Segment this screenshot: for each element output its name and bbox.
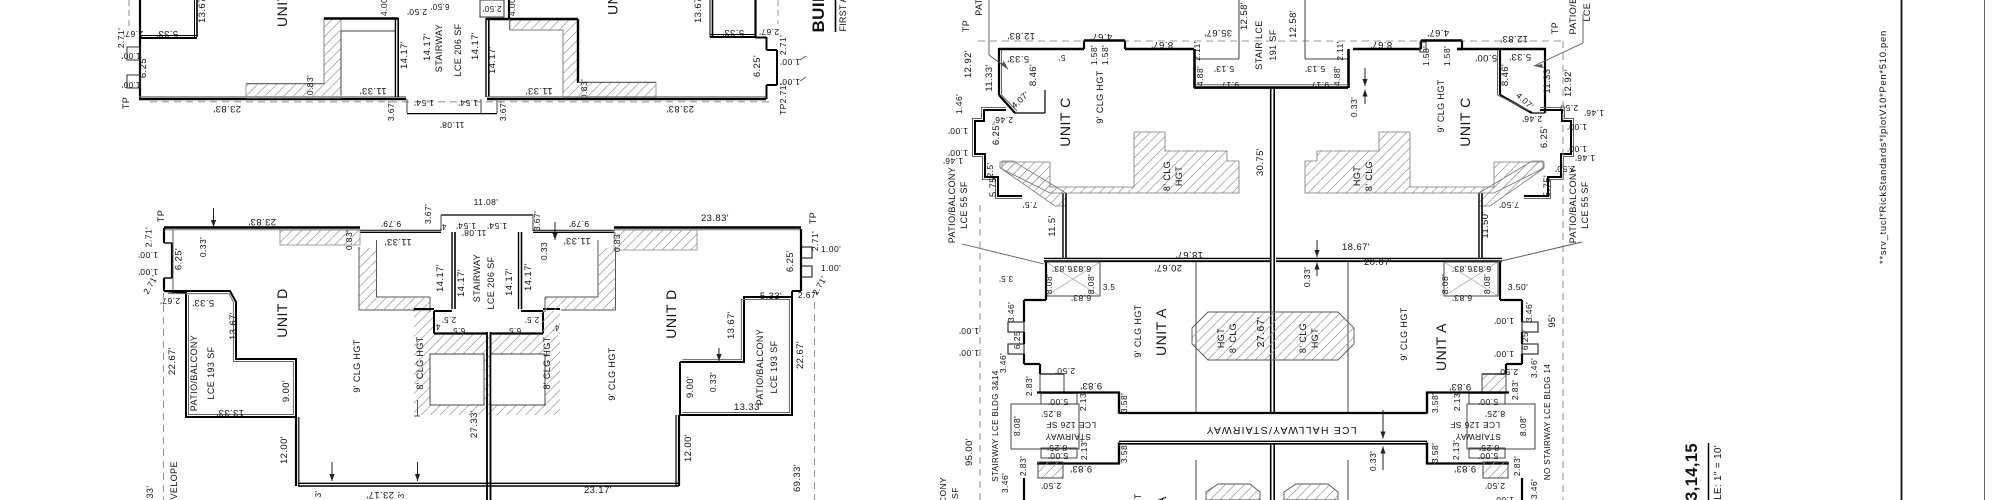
svg-text:35.67': 35.67': [1204, 27, 1232, 38]
svg-text:UNIT C: UNIT C: [1057, 97, 1073, 146]
svg-text:7.5': 7.5': [1022, 200, 1037, 210]
svg-text:95': 95': [1547, 315, 1557, 328]
dashed boundary: [978, 40, 1562, 42]
svg-text:5.13': 5.13': [1214, 64, 1234, 74]
svg-text:11.33': 11.33': [525, 85, 552, 96]
svg-text:33': 33': [145, 486, 155, 499]
svg-text:5.33': 5.33': [722, 27, 744, 38]
svg-text:UNIT D: UNIT D: [605, 0, 621, 15]
svg-text:1.00': 1.00': [1567, 144, 1587, 154]
svg-text:9.83': 9.83': [1080, 380, 1102, 391]
dashed setback line: [150, 101, 770, 103]
svg-text:9' CLG HGT: 9' CLG HGT: [607, 347, 617, 400]
svg-text:3.58': 3.58': [1119, 443, 1129, 463]
svg-text:12.00': 12.00': [279, 436, 290, 464]
svg-text:HGT: HGT: [1174, 166, 1184, 186]
svg-text:20.67': 20.67': [1154, 262, 1182, 273]
svg-text:14.17': 14.17': [523, 263, 534, 291]
svg-text:TP: TP: [121, 97, 131, 109]
svg-text:8.46': 8.46': [1028, 64, 1039, 86]
svg-text:8.08': 8.08': [1518, 416, 1528, 436]
svg-text:6.5': 6.5': [507, 326, 521, 335]
interior wall: [1195, 262, 1197, 412]
wall: [577, 19, 579, 83]
svg-text:2.50': 2.50': [482, 4, 501, 13]
svg-text:2.13': 2.13': [1452, 391, 1462, 411]
svg-text:4.88': 4.88': [1195, 66, 1205, 86]
svg-text:9.83': 9.83': [1070, 463, 1092, 474]
stepped interior wall band right: [615, 247, 617, 310]
svg-text:8.08': 8.08': [1086, 274, 1096, 294]
svg-text:3.58': 3.58': [1430, 393, 1440, 413]
svg-text:1.00': 1.00': [821, 263, 841, 273]
svg-text:STAIRWAY: STAIRWAY: [472, 254, 482, 302]
stair shaft: [1238, 0, 1240, 59]
svg-text:HGT: HGT: [1216, 328, 1226, 348]
svg-text:6.83': 6.83': [1471, 264, 1491, 274]
leader: [962, 244, 1044, 264]
hatched wall band: [246, 19, 341, 98]
svg-text:2.71': 2.71': [810, 231, 820, 251]
svg-text:1.54': 1.54': [458, 98, 478, 108]
svg-text:12.58': 12.58': [1288, 10, 1299, 38]
svg-text:8' CLG: 8' CLG: [1364, 161, 1374, 191]
svg-text:LCE HALLWAY/STAIRWAY: LCE HALLWAY/STAIRWAY: [1205, 424, 1356, 436]
wall: unit A west jogs: [1045, 262, 1047, 300]
svg-text:1.00': 1.00': [121, 80, 140, 89]
svg-text:9.17': 9.17': [1219, 80, 1239, 90]
svg-text:23.17': 23.17': [584, 485, 612, 496]
svg-text:UNIT A: UNIT A: [1153, 308, 1169, 356]
svg-text:7.50': 7.50': [1499, 200, 1519, 210]
svg-text:3.58': 3.58': [1430, 443, 1440, 463]
svg-text:30.75': 30.75': [1255, 148, 1266, 176]
wall: stairway east wall: [488, 18, 490, 97]
stair landing: [406, 99, 408, 113]
svg-text:12.92': 12.92': [963, 50, 974, 78]
svg-text:LCE 55 SF: LCE 55 SF: [959, 181, 969, 229]
svg-text:11.33': 11.33': [359, 85, 386, 96]
wall: north wall left (23.83): [164, 226, 360, 229]
svg-text:20.67': 20.67': [1364, 257, 1392, 268]
svg-text:9' CLG HGT: 9' CLG HGT: [1133, 304, 1143, 357]
interior rooms: [430, 354, 484, 405]
svg-text:5.33': 5.33': [192, 297, 214, 308]
party wall: [486, 332, 488, 500]
stairway LCE 126 SF right: [1426, 391, 1509, 393]
svg-text:23.83': 23.83': [701, 213, 729, 224]
svg-text:LCE 55 SF: LCE 55 SF: [1580, 181, 1590, 229]
svg-text:GS 13,14,15: GS 13,14,15: [1683, 443, 1701, 500]
svg-text:1.54': 1.54': [414, 98, 434, 108]
svg-text:3.5': 3.5': [999, 274, 1013, 283]
svg-text:1.00': 1.00': [138, 250, 158, 260]
svg-text:LCE 5: LCE 5: [1582, 0, 1592, 22]
svg-text:1.00': 1.00': [1494, 495, 1514, 500]
svg-text:11.33': 11.33': [984, 64, 995, 91]
svg-text:9' CLG HGT: 9' CLG HGT: [1133, 493, 1143, 500]
svg-text:1.00': 1.00': [1494, 349, 1514, 359]
svg-text:1.46': 1.46': [954, 94, 964, 114]
patio/balcony right: [680, 297, 792, 415]
svg-text:3.46': 3.46': [1529, 479, 1539, 499]
svg-text:27.67': 27.67': [1255, 317, 1267, 348]
svg-text:2.50': 2.50': [1041, 481, 1061, 491]
svg-text:13.67': 13.67': [693, 0, 704, 23]
svg-text:0.83': 0.83': [579, 79, 589, 99]
svg-text:LCE 206 SF: LCE 206 SF: [453, 23, 463, 76]
svg-text:2.5': 2.5': [442, 315, 456, 324]
svg-text:8.46': 8.46': [1500, 64, 1511, 86]
svg-text:1.58': 1.58': [1442, 46, 1452, 66]
svg-text:6.25': 6.25': [174, 248, 185, 270]
svg-text:5.33': 5.33': [1509, 51, 1531, 62]
svg-text:8' CLG HGT: 8' CLG HGT: [415, 336, 425, 389]
svg-text:3.46': 3.46': [1524, 302, 1534, 322]
svg-text:3.58': 3.58': [1119, 393, 1129, 413]
svg-text:PATIO/BALCONY: PATIO/BALCONY: [189, 335, 199, 411]
wall: east jogs: [766, 37, 768, 50]
svg-text:6.25': 6.25': [752, 55, 763, 77]
hatched wall band right: [510, 20, 656, 98]
svg-text:11.5': 11.5': [1047, 215, 1058, 237]
svg-text:STAIRWAY: STAIRWAY: [1455, 432, 1501, 442]
svg-text:2.50': 2.50': [407, 7, 427, 17]
bay window wall: [998, 48, 1000, 95]
svg-text:1.00': 1.00': [138, 267, 158, 277]
svg-text:8.08': 8.08': [1440, 274, 1450, 294]
svg-text:23.17': 23.17': [366, 489, 394, 500]
svg-text:**srv_tucl*RickStandards*Iplot: **srv_tucl*RickStandards*IplotV10*Pen*51…: [1877, 30, 1888, 264]
svg-text:11.08': 11.08': [462, 228, 487, 238]
svg-text:69.33': 69.33': [792, 464, 803, 492]
svg-text:6.83': 6.83': [1452, 264, 1472, 274]
hallway north wall: [1119, 412, 1427, 414]
svg-text:3.46': 3.46': [1000, 473, 1010, 493]
svg-text:5.75': 5.75': [988, 175, 999, 197]
svg-text:PATIO/BALCONY: PATIO/BALCONY: [1568, 167, 1578, 243]
svg-text:6.50': 6.50': [430, 2, 449, 11]
wall: south wall left unit: [139, 98, 406, 101]
wall: stairway west wall: [397, 18, 399, 97]
dashed line left: [979, 205, 981, 500]
svg-text:3.67': 3.67': [498, 101, 508, 121]
svg-text:3': 3': [314, 491, 323, 498]
svg-text:9.00': 9.00': [685, 376, 696, 398]
svg-text:9' CLG HGT: 9' CLG HGT: [1399, 307, 1409, 360]
svg-text:14.17': 14.17': [456, 269, 467, 297]
svg-text:18.67': 18.67': [1342, 242, 1370, 253]
wall: west wall jogs: [163, 228, 165, 243]
svg-text:3.50': 3.50': [1508, 282, 1528, 292]
svg-text:1.00': 1.00': [821, 244, 841, 254]
svg-text:8.67': 8.67': [1151, 39, 1173, 50]
svg-text:9.79': 9.79': [569, 219, 589, 229]
svg-text:6.83': 6.83': [1071, 264, 1091, 274]
svg-text:4.00: 4.00: [507, 0, 517, 16]
svg-text:1.46': 1.46': [943, 156, 963, 166]
svg-text:2.83': 2.83': [1512, 456, 1522, 476]
svg-text:6.83': 6.83': [1052, 264, 1072, 274]
svg-text:8' CLG HGT: 8' CLG HGT: [542, 336, 552, 389]
svg-text:2.11': 2.11': [1192, 41, 1202, 61]
svg-text:5.00': 5.00': [1478, 397, 1498, 407]
svg-text:6.25: 6.25: [1012, 331, 1022, 349]
interior 8ft ceiling wall hatch: [1000, 132, 1239, 193]
wall: unit west wall: [139, 37, 141, 99]
svg-text:2.83': 2.83': [1024, 376, 1034, 396]
svg-text:14.17': 14.17': [422, 33, 433, 61]
svg-text:UNIT C: UNIT C: [1457, 97, 1473, 146]
svg-text:8' CLG: 8' CLG: [1228, 323, 1238, 353]
svg-text:1.58': 1.58': [1100, 45, 1110, 65]
svg-text:11.08': 11.08': [440, 120, 465, 130]
svg-text:LCE 126 SF: LCE 126 SF: [1046, 420, 1096, 430]
svg-text:14.17': 14.17': [504, 268, 515, 296]
svg-text:6.5': 6.5': [451, 326, 465, 335]
svg-text:4.88': 4.88': [1332, 66, 1342, 86]
core of next unit: [1206, 484, 1260, 500]
svg-text:22.67': 22.67': [795, 341, 806, 369]
svg-text:CONY: CONY: [938, 477, 948, 500]
svg-text:1.54': 1.54': [487, 221, 507, 231]
party wall lower: [1270, 443, 1272, 500]
svg-text:12.00': 12.00': [683, 434, 694, 462]
stairway LCE 126 SF left: [1037, 391, 1120, 393]
wall: unit A east jogs: [1499, 262, 1501, 300]
svg-text:HGT: HGT: [1352, 166, 1362, 186]
svg-text:6.83': 6.83': [1452, 293, 1472, 303]
svg-text:13.67': 13.67': [197, 0, 208, 23]
svg-text:2.71': 2.71': [778, 35, 788, 55]
svg-text:13.33': 13.33': [734, 402, 762, 413]
svg-text:13.33': 13.33': [216, 407, 244, 418]
svg-text:PATIO/BALCONY: PATIO/BALCONY: [947, 167, 957, 243]
svg-text:0.33': 0.33': [708, 372, 718, 392]
svg-text:5.33': 5.33': [760, 291, 782, 302]
svg-text:TP2.71': TP2.71': [778, 83, 788, 115]
svg-text:2.83': 2.83': [1510, 380, 1520, 400]
sheet border lines: [1901, 0, 1903, 500]
svg-text:UNIT D: UNIT D: [274, 0, 290, 27]
wall: unit C right north wall: [1353, 48, 1421, 50]
svg-text:SCALE: 1" = 10': SCALE: 1" = 10': [1713, 445, 1724, 500]
wall: unit D SE wall: [678, 415, 680, 486]
svg-text:TP: TP: [1550, 22, 1560, 34]
wall: [1062, 193, 1064, 258]
svg-text:NO STAIRWAY LCE BLDG 14: NO STAIRWAY LCE BLDG 14: [1543, 364, 1552, 480]
svg-text:LCE 206 SF: LCE 206 SF: [486, 256, 496, 309]
wall: south wall right unit: [487, 98, 766, 101]
svg-text:4.00: 4.00: [379, 0, 389, 16]
svg-text:3.5: 3.5: [1103, 283, 1115, 292]
svg-text:2.5': 2.5': [525, 315, 539, 324]
svg-text:5.13': 5.13': [1305, 64, 1325, 74]
svg-text:STAIRWAY LCE BLDG 3&14: STAIRWAY LCE BLDG 3&14: [991, 370, 1000, 482]
hatched wall band: [1002, 161, 1066, 206]
svg-text:1.46': 1.46': [1584, 108, 1604, 118]
svg-text:2.13': 2.13': [1079, 440, 1089, 460]
svg-text:0.83': 0.83': [305, 75, 315, 95]
wall: top-left room west wall: [139, 0, 141, 37]
svg-text:3.67': 3.67': [386, 101, 396, 121]
svg-text:0.33: 0.33: [539, 242, 549, 260]
svg-text:8.25': 8.25': [1041, 409, 1061, 419]
svg-text:1.00': 1.00': [948, 126, 968, 136]
svg-text:PATIO/B: PATIO/B: [1568, 0, 1578, 34]
dashed building envelope: [163, 293, 165, 500]
wall: mid belt: [1044, 257, 1270, 259]
svg-text:STAIR LCE: STAIR LCE: [1254, 20, 1264, 69]
svg-text:6.25': 6.25': [1520, 330, 1530, 350]
svg-text:3': 3': [397, 492, 406, 499]
svg-text:9' CLG HGT: 9' CLG HGT: [1436, 79, 1446, 132]
svg-text:TP: TP: [808, 212, 818, 224]
svg-text:6.25': 6.25': [991, 123, 1002, 145]
svg-text:8' CLG: 8' CLG: [1162, 161, 1172, 191]
svg-text:PAT: PAT: [974, 0, 984, 16]
svg-text:0.33': 0.33': [1368, 451, 1378, 471]
svg-text:UNIT D: UNIT D: [274, 288, 290, 337]
svg-text:8.08': 8.08': [1012, 416, 1022, 436]
svg-text:18.67': 18.67': [1175, 249, 1203, 260]
svg-text:ENVELOPE: ENVELOPE: [169, 461, 179, 500]
svg-text:1.00': 1.00': [1494, 316, 1514, 326]
svg-text:HGT: HGT: [1310, 328, 1320, 348]
svg-text:12.92': 12.92': [1563, 69, 1574, 97]
0.33 arrows: [1364, 68, 1366, 86]
svg-text:2.67': 2.67': [160, 296, 180, 306]
svg-text:11.33': 11.33': [563, 235, 590, 246]
svg-text:1.46': 1.46': [1575, 153, 1595, 163]
svg-text:0.83': 0.83': [344, 230, 354, 250]
svg-text:23.83': 23.83': [666, 103, 694, 114]
svg-text:95.00': 95.00': [964, 438, 975, 466]
svg-text:TP: TP: [961, 20, 971, 32]
svg-text:2.67': 2.67': [759, 27, 779, 37]
svg-text:UNIT A: UNIT A: [1433, 323, 1449, 371]
svg-text:5.33': 5.33': [1007, 53, 1029, 64]
svg-text:2.50': 2.50': [1055, 366, 1075, 376]
leader line: [988, 0, 990, 55]
svg-text:1.00': 1.00': [1567, 122, 1587, 132]
south edge: [298, 482, 679, 484]
svg-text:11.50': 11.50': [1480, 211, 1491, 238]
wall: east wall jogs: [800, 229, 802, 247]
svg-text:STAIRWAY: STAIRWAY: [434, 24, 444, 72]
hallway south wall: [1119, 440, 1427, 442]
svg-text:1.00': 1.00': [121, 51, 140, 60]
stair landing walls: [434, 310, 452, 312]
svg-text:4.67': 4.67': [1427, 27, 1449, 38]
svg-text:SF: SF: [950, 487, 960, 499]
svg-text:9.83': 9.83': [1449, 381, 1471, 392]
svg-text:2.46': 2.46': [1522, 114, 1542, 124]
svg-text:5.00': 5.00': [1048, 451, 1068, 461]
wall: unit D SW wall: [298, 417, 300, 486]
svg-text:6.83': 6.83': [1071, 293, 1091, 303]
svg-text:12.83': 12.83': [1500, 33, 1528, 44]
hatched band: [280, 230, 360, 245]
svg-text:9' CLG HGT: 9' CLG HGT: [1095, 70, 1105, 123]
svg-text:5.00': 5.00': [1478, 451, 1498, 461]
wall: top-right room: [712, 0, 714, 37]
svg-text:9.00': 9.00': [281, 380, 292, 402]
svg-text:2.50': 2.50': [1498, 367, 1518, 377]
svg-text:191 SF: 191 SF: [1268, 29, 1278, 61]
svg-text:5.75': 5.75': [1542, 175, 1553, 197]
svg-text:3.67': 3.67': [532, 211, 542, 231]
wall: north wall right (23.83): [614, 226, 801, 229]
svg-text:1.00': 1.00': [780, 57, 800, 67]
svg-text:14.17': 14.17': [470, 32, 481, 60]
svg-text:8.25': 8.25': [1485, 409, 1505, 419]
svg-text:3.67': 3.67': [423, 204, 433, 224]
svg-text:2.11': 2.11': [1335, 41, 1345, 61]
svg-text:PATIO/BALCONY: PATIO/BALCONY: [755, 329, 765, 405]
svg-text:8.08': 8.08': [1482, 274, 1492, 294]
svg-text:8' CLG: 8' CLG: [1298, 323, 1308, 353]
svg-text:12.83': 12.83': [1007, 30, 1035, 41]
svg-text:6.25': 6.25': [1539, 126, 1550, 148]
svg-text:9.83': 9.83': [1454, 463, 1476, 474]
svg-text:LCE 126 SF: LCE 126 SF: [1450, 420, 1500, 430]
leader hook: [800, 56, 806, 60]
svg-text:0.33': 0.33': [198, 237, 208, 257]
stairway west wall: [451, 232, 453, 309]
svg-text:2.50': 2.50': [1485, 481, 1505, 491]
svg-text:14.17': 14.17': [435, 264, 446, 292]
svg-text:0.33': 0.33': [1349, 97, 1359, 117]
svg-text:12.58': 12.58': [1239, 2, 1250, 30]
svg-text:4': 4': [440, 222, 447, 231]
svg-text:14.17': 14.17': [399, 41, 410, 69]
svg-text:LCE 193 SF: LCE 193 SF: [206, 346, 216, 399]
stair box: [1046, 262, 1100, 296]
svg-text:2.71': 2.71': [144, 227, 154, 247]
svg-text:2.13': 2.13': [1451, 440, 1461, 460]
svg-text:TP: TP: [156, 210, 166, 222]
hatched core (fireplace/chase): [1192, 312, 1354, 360]
svg-text:BUILDING 1: BUILDING 1: [809, 0, 828, 33]
wall: stair header: [324, 17, 398, 19]
wall: unit C north wall: [999, 48, 1084, 50]
svg-text:13.67': 13.67': [726, 311, 737, 339]
svg-text:0.33': 0.33': [1302, 267, 1312, 287]
svg-text:9.79': 9.79': [381, 219, 401, 229]
wall: top wall right unit: [510, 18, 578, 20]
svg-text:2.83': 2.83': [1018, 456, 1028, 476]
hatched interior zone: [414, 335, 560, 415]
svg-text:5.00': 5.00': [1475, 52, 1497, 63]
svg-text:LCE 193 SF: LCE 193 SF: [769, 340, 779, 393]
svg-text:11.33': 11.33': [1542, 66, 1553, 93]
svg-text:3.46': 3.46': [998, 353, 1008, 373]
svg-text:11.33': 11.33': [384, 236, 411, 247]
svg-text:4': 4': [434, 322, 441, 331]
svg-text:23.83': 23.83': [213, 103, 241, 114]
patio/balcony left: [164, 291, 296, 417]
wall: west jogs unit C: [975, 110, 1022, 196]
svg-text:1.58': 1.58': [1089, 45, 1099, 65]
svg-text:UNIT A: UNIT A: [1153, 496, 1169, 500]
svg-text:2.71': 2.71': [116, 28, 126, 48]
svg-text:9' CLG HGT: 9' CLG HGT: [352, 339, 362, 392]
stair south wall: [1194, 86, 1348, 89]
svg-text:1.00': 1.00': [959, 348, 979, 358]
svg-text:5.00': 5.00': [1048, 397, 1068, 407]
svg-text:22.67': 22.67': [167, 347, 178, 375]
